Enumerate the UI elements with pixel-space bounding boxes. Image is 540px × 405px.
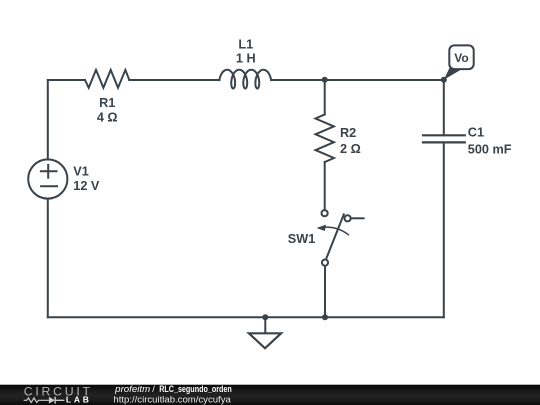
svg-text:12 V: 12 V — [73, 179, 100, 193]
wire right vertical top (Vo node to C1) — [443, 80, 445, 136]
svg-text:R2: R2 — [340, 126, 356, 140]
svg-text:profeitm: profeitm — [114, 384, 150, 394]
SW1 top terminal circle — [322, 210, 328, 216]
wire L1 to Vo node — [271, 79, 444, 81]
svg-text:2 Ω: 2 Ω — [340, 142, 361, 156]
logo resistor squiggle — [24, 398, 49, 403]
wire C1 to bottom — [443, 142, 445, 317]
svg-text:RLC_segundo_orden: RLC_segundo_orden — [159, 384, 232, 394]
wire V1 to bottom — [47, 199, 49, 318]
SW1 motion arc — [318, 227, 349, 235]
wire top-left horizontal — [48, 79, 85, 81]
ground stem — [264, 317, 266, 333]
svg-text:/: / — [152, 384, 155, 394]
V1 plus sign — [41, 165, 57, 178]
voltage source V1 circle — [28, 159, 67, 198]
capacitor C1 top plate — [423, 134, 465, 136]
junction node Vo — [441, 77, 447, 83]
resistor R2 — [316, 115, 334, 163]
svg-text:Vo: Vo — [454, 51, 468, 65]
SW1 arc arrowhead — [317, 225, 326, 231]
svg-text:L1: L1 — [238, 38, 253, 52]
svg-text:R1: R1 — [99, 96, 115, 110]
ground triangle — [249, 333, 281, 348]
svg-text:1 H: 1 H — [236, 52, 256, 66]
resistor R1 — [85, 70, 129, 88]
SW1 right stub wire — [351, 217, 365, 219]
wire R2 to switch — [324, 162, 326, 210]
svg-text:4 Ω: 4 Ω — [97, 111, 118, 125]
junction node ground — [262, 314, 268, 320]
svg-text:SW1: SW1 — [288, 232, 316, 246]
junction node switch bottom — [322, 314, 328, 320]
wire bottom horizontal — [48, 316, 444, 318]
junction node R2 top — [322, 77, 328, 83]
wire R2 branch top — [324, 80, 326, 115]
Vo flag box — [449, 45, 473, 69]
logo diode symbol — [49, 397, 55, 404]
capacitor C1 bottom plate — [423, 141, 465, 143]
svg-text:C1: C1 — [468, 126, 484, 140]
svg-text:LAB: LAB — [66, 395, 89, 405]
wire R1 to L1 — [129, 79, 219, 81]
V1 minus sign — [41, 185, 57, 187]
inductor L1 — [219, 70, 271, 89]
svg-text:http://circuitlab.com/cycufya: http://circuitlab.com/cycufya — [113, 394, 231, 404]
Vo flag tail — [444, 67, 462, 80]
wire left vertical top (to V1) — [47, 80, 49, 159]
SW1 blade — [326, 213, 344, 258]
SW1 right terminal circle — [345, 215, 351, 221]
wire switch to bottom — [324, 266, 326, 318]
switch SW1 — [322, 210, 351, 266]
SW1 bottom terminal circle — [322, 260, 328, 266]
svg-text:V1: V1 — [73, 165, 89, 179]
svg-text:500 mF: 500 mF — [468, 142, 512, 156]
